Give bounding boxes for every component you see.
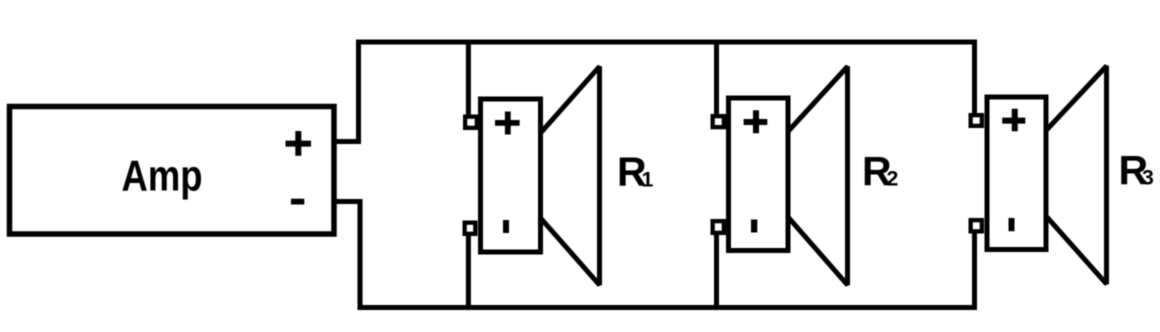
svg-text:Amp: Amp bbox=[122, 152, 203, 201]
speaker R2 plus mark bbox=[744, 110, 768, 133]
speaker R3 body bbox=[987, 97, 1046, 250]
wire speaker1 top drop bbox=[466, 40, 471, 119]
wire amp minus stub and drop bbox=[334, 202, 360, 308]
speaker R1 body bbox=[481, 99, 541, 252]
wire speaker3 top drop bbox=[972, 40, 977, 117]
speaker R3 terminal square minus bbox=[971, 220, 982, 231]
speaker R3 plus mark bbox=[1002, 109, 1025, 131]
speaker R2 horn bbox=[788, 67, 848, 286]
speaker R1 plus mark bbox=[495, 112, 520, 135]
wire speaker3 bottom drop bbox=[972, 231, 977, 310]
amp plus terminal mark bbox=[286, 131, 312, 156]
wire top rail bbox=[356, 40, 975, 45]
speaker R1 horn bbox=[541, 67, 600, 286]
wire amp plus stub and riser bbox=[334, 42, 359, 142]
svg-text:3: 3 bbox=[1142, 166, 1154, 190]
wire speaker2 bottom drop bbox=[714, 232, 719, 310]
speaker R3 minus mark bbox=[1009, 218, 1015, 231]
speaker R2 minus mark bbox=[751, 220, 757, 233]
wire speaker1 bottom drop bbox=[466, 233, 471, 310]
speaker R1 minus mark bbox=[503, 220, 509, 233]
wire speaker2 top drop bbox=[714, 40, 719, 118]
speaker R1 terminal square minus bbox=[465, 223, 476, 234]
speaker R1 terminal square plus bbox=[465, 117, 477, 128]
svg-text:1: 1 bbox=[642, 168, 654, 192]
speaker R2 body bbox=[729, 98, 789, 251]
amp minus terminal mark bbox=[291, 199, 304, 205]
amplifier box Amp bbox=[10, 107, 335, 235]
speaker R3 horn bbox=[1046, 66, 1107, 284]
svg-text:2: 2 bbox=[887, 167, 899, 191]
speaker R2 terminal square minus bbox=[713, 221, 724, 233]
wire bottom rail bbox=[358, 305, 975, 310]
speaker R2 terminal square plus bbox=[713, 116, 724, 127]
speaker R3 terminal square plus bbox=[971, 115, 982, 126]
